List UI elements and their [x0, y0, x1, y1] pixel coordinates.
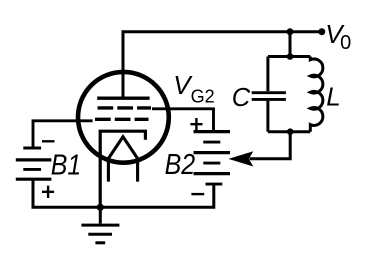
polarity plus B1	[42, 186, 54, 198]
wire: tank top rail	[268, 55, 310, 58]
polarity plus B2	[190, 118, 202, 130]
polarity minus B2	[191, 193, 204, 195]
svg-text:V0: V0	[325, 19, 351, 54]
wire: bottom rail from B1 to B2	[33, 179, 214, 207]
node: tank bottom junction	[287, 128, 294, 135]
terminal Vo	[318, 28, 325, 35]
battery B2	[194, 132, 231, 185]
screen grid G2	[98, 106, 152, 109]
wire: screen grid G2 to B2 plus terminal	[152, 109, 214, 130]
cathode	[100, 131, 145, 207]
tube V1 envelope	[78, 72, 169, 163]
node: tank top junction	[287, 53, 294, 60]
wire: top rail down to tank	[289, 32, 292, 57]
capacitor C	[252, 57, 286, 132]
node: top rail tank junction	[287, 28, 294, 35]
wire: tank bottom rail	[268, 130, 310, 133]
svg-text:B1: B1	[51, 149, 82, 181]
polarity minus B1	[42, 140, 55, 142]
node: ground junction	[97, 204, 104, 211]
wire: control grid G1 to B1	[33, 121, 93, 147]
control grid G1	[95, 118, 149, 121]
inductor L	[310, 57, 323, 132]
svg-text:L: L	[326, 82, 340, 112]
wire: tank bottom to B2 tap	[250, 132, 291, 159]
arrowhead: tap into battery B2	[228, 151, 253, 166]
svg-text:B2: B2	[165, 148, 196, 180]
filament heater	[108, 137, 137, 182]
ground symbol	[81, 207, 119, 243]
wire: plate lead and top rail to Vo	[123, 32, 322, 97]
svg-text:C: C	[232, 84, 251, 112]
svg-text:VG2: VG2	[173, 70, 214, 107]
plate (anode)	[97, 97, 149, 100]
battery B1	[16, 148, 52, 179]
